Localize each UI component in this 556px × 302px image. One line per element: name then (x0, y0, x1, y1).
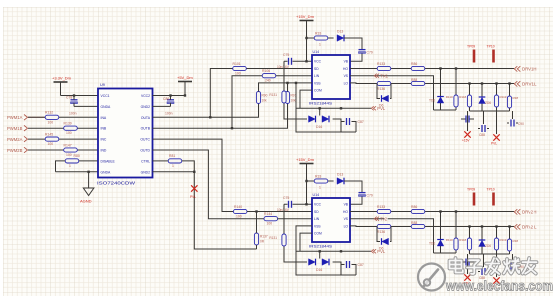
svg-text:CTRL: CTRL (141, 159, 150, 163)
wire (28, 127, 98, 129)
svg-text:+5V_Dm: +5V_Dm (177, 75, 193, 80)
hanzi 电子发烧友 drawn as strokes (450, 258, 537, 274)
svg-text:R147: R147 (64, 143, 72, 147)
capacitor C87 (347, 118, 350, 125)
diode D13 (337, 35, 344, 42)
svg-text:R88: R88 (411, 78, 417, 82)
svg-text:PWM1A: PWM1A (7, 115, 23, 120)
svg-text:U9: U9 (100, 83, 105, 87)
svg-text:INC: INC (101, 138, 107, 142)
svg-text:TP10: TP10 (487, 45, 495, 49)
resistor R132 (45, 111, 59, 125)
svg-text:100: 100 (48, 142, 54, 146)
resistor R144 (264, 212, 312, 226)
svg-text:100: 100 (66, 131, 72, 135)
svg-text:R139: R139 (64, 122, 72, 126)
svg-text:PWM1B: PWM1B (7, 126, 23, 131)
svg-text:VCC2: VCC2 (141, 94, 150, 98)
resistor R91 (285, 82, 296, 104)
svg-text:PVL: PVL (491, 142, 497, 146)
wire to AGND (88, 172, 90, 188)
port PWM1A (7, 115, 45, 121)
svg-text:R110: R110 (446, 95, 453, 99)
wire (28, 116, 98, 118)
wire OUTA + staircase to SD line (153, 69, 259, 118)
svg-text:ISO7240CDW: ISO7240CDW (97, 181, 136, 186)
capacitor C78 (66, 94, 78, 115)
junction (209, 116, 211, 118)
svg-text:COM: COM (314, 89, 322, 93)
wire OUTD down to driver2 (153, 150, 265, 219)
svg-text:IRS21844S: IRS21844S (309, 101, 332, 106)
svg-text:www.elecfans.com: www.elecfans.com (445, 278, 553, 294)
resistor R38 (508, 82, 510, 84)
svg-text:100: 100 (48, 120, 54, 124)
svg-text:ZD6: ZD6 (485, 101, 491, 105)
rail 1 (434, 109, 457, 111)
svg-text:+15V: +15V (462, 139, 470, 143)
svg-text:D16: D16 (316, 125, 322, 129)
svg-text:C86: C86 (163, 97, 169, 101)
svg-text:PVL: PVL (190, 195, 196, 199)
resistor R90 (256, 82, 297, 104)
svg-text:GNDA: GNDA (101, 170, 112, 174)
junction (87, 171, 89, 173)
right cluster: zener TD6 (439, 67, 441, 69)
red no-erc symbol (190, 185, 198, 199)
svg-text:R38: R38 (513, 96, 519, 100)
svg-text:OUTC: OUTC (140, 138, 150, 142)
IC U9 box (97, 83, 153, 186)
svg-text:LIN: LIN (314, 74, 320, 78)
svg-text:DRV1H: DRV1H (522, 67, 537, 72)
HO output row: R133, R86 (350, 68, 514, 70)
svg-text:100n: 100n (165, 112, 173, 116)
svg-text:TX1: TX1 (380, 74, 388, 79)
svg-text:INA: INA (101, 116, 107, 120)
svg-text:IND: IND (101, 149, 107, 153)
svg-text:240: 240 (265, 79, 271, 83)
svg-text:R131: R131 (269, 93, 277, 97)
svg-text:GND2: GND2 (141, 105, 151, 109)
svg-text:AGND: AGND (80, 199, 92, 204)
wire GND1 (74, 105, 98, 107)
svg-text:100: 100 (66, 153, 72, 157)
LO output row: R136, R88 (350, 82, 514, 85)
svg-text:R136: R136 (377, 87, 385, 91)
svg-text:HO: HO (343, 67, 348, 71)
port PWM2B (7, 147, 28, 153)
wire (28, 149, 98, 151)
power +5V (177, 75, 193, 96)
svg-text:C78: C78 (66, 96, 72, 100)
svg-text:+3.3V_Dm: +3.3V_Dm (52, 76, 72, 81)
junction (193, 171, 195, 173)
port DRV1L (514, 81, 520, 86)
svg-text:0R: 0R (260, 239, 265, 243)
svg-text:100: 100 (267, 222, 273, 226)
diode D6 across R136 (377, 84, 391, 99)
resistor R80 (disable) (56, 154, 99, 172)
svg-text:OUTA: OUTA (141, 116, 151, 120)
wire VCC1 (61, 95, 99, 97)
dual diode D16 (309, 116, 316, 123)
svg-text:GNDA: GNDA (101, 105, 112, 109)
capacitor C88 (478, 111, 489, 129)
svg-text:R132: R132 (45, 111, 53, 115)
svg-text:R145: R145 (45, 133, 53, 137)
svg-text:C87: C87 (358, 120, 364, 124)
resistor R110 (455, 67, 457, 69)
capacitor C75 (284, 60, 312, 62)
svg-text:U14: U14 (313, 50, 320, 54)
svg-text:R133: R133 (377, 62, 385, 66)
resistor R131 (282, 91, 286, 103)
svg-text:R86: R86 (411, 62, 417, 66)
svg-text:R144: R144 (264, 212, 272, 216)
svg-text:1: 1 (319, 43, 321, 47)
wire GND2 (153, 105, 171, 107)
ground AGND (80, 188, 94, 204)
resistor R119 (495, 82, 497, 84)
svg-text:LO: LO (344, 81, 349, 85)
svg-text:100: 100 (235, 72, 241, 76)
wire OUTC down to driver2 (153, 139, 234, 211)
svg-text:R140: R140 (234, 205, 242, 209)
svg-text:PWM2B: PWM2B (7, 148, 23, 153)
resistor R101 (233, 62, 313, 76)
svg-text:VCC: VCC (314, 60, 322, 64)
svg-text:+15V_Dm: +15V_Dm (296, 14, 315, 19)
wire GND2 bottom (153, 171, 195, 173)
svg-text:TD6: TD6 (429, 99, 435, 103)
capacitor C86 (163, 94, 174, 115)
svg-text:TP09: TP09 (467, 45, 475, 49)
svg-text:C75: C75 (283, 53, 289, 57)
left bottom rail wires (284, 61, 356, 132)
digit overrides for cell 2 (385, 209, 534, 230)
wire (328, 37, 334, 39)
junction (184, 94, 186, 96)
rail 2 (470, 110, 510, 112)
capacitor C90 (507, 111, 518, 123)
resistor R139 (64, 122, 78, 136)
svg-text:10n/16V: 10n/16V (277, 65, 290, 69)
power +3.3V (52, 76, 72, 96)
svg-text:10k: 10k (291, 98, 297, 102)
svg-text:DRV1L: DRV1L (522, 82, 537, 87)
zener ZD6 (481, 82, 483, 84)
svg-text:1: 1 (69, 164, 71, 168)
svg-text:R90: R90 (262, 94, 268, 98)
resistor R147 (64, 143, 78, 157)
red power sym 2 (496, 111, 498, 134)
wire bootstrap (344, 38, 362, 61)
svg-text:10k: 10k (262, 98, 268, 102)
svg-text:OUTB: OUTB (141, 127, 151, 131)
svg-text:R137: R137 (260, 235, 268, 239)
wire OUTB + staircase to LIN line (153, 76, 288, 129)
wire GNDA row (56, 171, 99, 173)
capacitor C79 (359, 50, 366, 54)
svg-text:PWM2A: PWM2A (7, 137, 23, 142)
port PWM2A (7, 136, 28, 142)
svg-text:GND2: GND2 (141, 170, 151, 174)
svg-text:C79: C79 (367, 51, 373, 55)
svg-text:100: 100 (236, 215, 242, 219)
svg-text:SD: SD (314, 67, 319, 71)
wire VCC2 (153, 95, 186, 97)
resistor R106 (262, 69, 312, 83)
svg-text:R80: R80 (74, 154, 80, 158)
resistor R145 (45, 133, 59, 147)
wire (28, 138, 98, 140)
svg-text:INB: INB (101, 127, 107, 131)
resistor R81 on CTRL (153, 154, 257, 249)
port PWM1B (7, 125, 28, 131)
wire (307, 21, 316, 62)
svg-text:C90: C90 (518, 122, 524, 126)
svg-text:100n: 100n (69, 112, 77, 116)
svg-text:R101: R101 (233, 62, 241, 66)
svg-text:1: 1 (172, 164, 174, 168)
VS row with TX1 label (350, 76, 434, 110)
net label PVL (341, 107, 371, 109)
svg-text:R106: R106 (262, 69, 270, 73)
svg-text:OUTD: OUTD (140, 149, 150, 153)
svg-text:R118: R118 (459, 95, 466, 99)
svg-text:R119: R119 (500, 95, 507, 99)
svg-text:R33: R33 (315, 31, 321, 35)
svg-text:VSS: VSS (314, 81, 321, 85)
svg-text:R81: R81 (169, 154, 175, 158)
resistor R33 (314, 36, 328, 40)
junction (231, 127, 233, 129)
svg-text:VCC1: VCC1 (101, 94, 110, 98)
resistor R118 (468, 82, 470, 84)
driver IC box (312, 55, 350, 99)
svg-text:D13: D13 (337, 29, 343, 33)
svg-text:D6: D6 (379, 103, 383, 107)
red power sym 1 (467, 119, 469, 131)
port DRV1H (514, 66, 520, 71)
resistor R140 (233, 205, 312, 219)
resistor R137 (254, 210, 267, 249)
svg-text:DISABLE: DISABLE (101, 159, 116, 163)
capacitor Ca (461, 111, 474, 119)
svg-text:C88: C88 (479, 133, 485, 137)
